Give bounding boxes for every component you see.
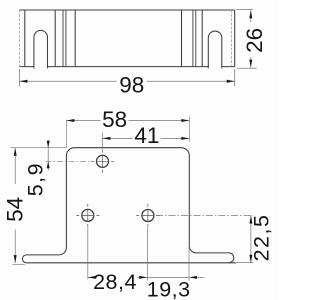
svg-text:98: 98 [119,72,144,97]
left slot (open at bottom) [34,30,48,68]
faint inner right line [231,10,233,67]
bend line x=181.5 [181,10,183,67]
left foot [22,247,236,262]
bend line x=202.2 [201,10,203,67]
bend line pair x=63 / 65.9 [63,10,66,67]
right slot (open at bottom) [208,31,222,68]
dimension 58 [66,120,189,122]
bend line x=55.2 [54,10,56,67]
dimension 22,5 [250,216,252,263]
dimension 41 [102,137,189,139]
faint left edge line [18,10,20,67]
bend line x=75.2 [74,10,76,67]
dimension 28,4 [88,276,147,278]
svg-text:28,4: 28,4 [93,270,137,294]
bend line x=24.8 [24,10,26,67]
top edge [19,9,234,11]
extension lines [11,117,254,281]
crosshairs [76,150,159,227]
svg-text:41: 41 [134,123,159,148]
svg-text:22,5: 22,5 [250,214,274,262]
dimension 19,3 [147,276,204,278]
right foot [189,246,234,263]
bottom edge segments (interrupted by slots) [19,66,234,68]
dimension 5,9 [47,140,49,171]
svg-text:54: 54 [3,197,28,222]
bend line pair x=192.9 / 195.8 [193,10,196,67]
main rounded body [66,148,189,248]
svg-text:26: 26 [242,28,267,53]
svg-text:5,9: 5,9 [23,162,47,196]
svg-text:19,3: 19,3 [147,277,191,300]
holes [82,155,154,221]
right edge [234,10,236,67]
dimension 54 [14,148,16,263]
svg-text:58: 58 [102,107,127,132]
dimension 98 [19,69,234,87]
dimension 26 [237,10,257,69]
